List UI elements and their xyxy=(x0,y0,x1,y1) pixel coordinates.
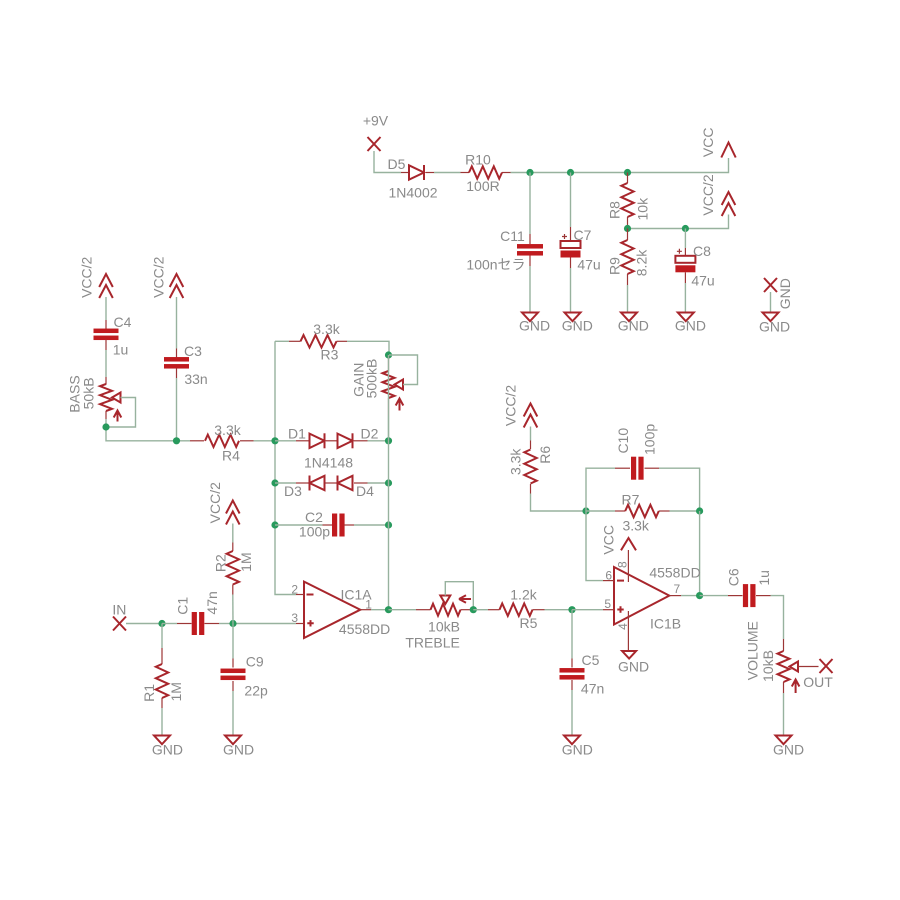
wire GAIN to D2 xyxy=(388,416,390,441)
wire R1 to GND xyxy=(161,708,163,736)
svg-text:3.3k: 3.3k xyxy=(214,422,241,438)
svg-text:GND: GND xyxy=(223,742,254,758)
svg-text:GND: GND xyxy=(675,318,706,334)
svg-text:8.2k: 8.2k xyxy=(633,249,649,276)
svg-text:R3: R3 xyxy=(321,347,339,363)
svg-text:100p: 100p xyxy=(299,524,330,540)
ground GND under C7 xyxy=(565,313,581,322)
wire to D3 xyxy=(275,482,296,484)
node left rail at D3 xyxy=(271,479,278,486)
ground GND under R9 xyxy=(621,313,637,322)
svg-text:R2: R2 xyxy=(212,554,228,572)
svg-text:C7: C7 xyxy=(574,227,592,243)
node IN pin xyxy=(113,617,126,631)
svg-text:1.2k: 1.2k xyxy=(510,587,537,603)
node GAIN top junction xyxy=(385,351,392,358)
svg-text:47u: 47u xyxy=(691,273,714,289)
svg-text:GND: GND xyxy=(777,278,793,309)
resistor R10 100R xyxy=(461,172,470,174)
power VCC arrow xyxy=(721,143,735,158)
wire R6 to feedback node xyxy=(531,494,587,512)
svg-text:10kB: 10kB xyxy=(760,650,776,682)
svg-text:2: 2 xyxy=(291,582,298,596)
wire C10 to right xyxy=(659,468,700,511)
svg-text:33n: 33n xyxy=(184,371,207,387)
wire feedback to output xyxy=(699,511,701,596)
svg-text:IC1B: IC1B xyxy=(650,616,681,632)
svg-text:4558DD: 4558DD xyxy=(649,565,700,581)
svg-text:1M: 1M xyxy=(168,682,184,701)
wire IN xyxy=(126,623,162,625)
wire to R1 xyxy=(161,624,163,649)
wire VCC rail xyxy=(511,158,729,173)
svg-text:1M: 1M xyxy=(238,552,254,571)
svg-text:3.3k: 3.3k xyxy=(507,448,523,475)
svg-text:C9: C9 xyxy=(246,654,264,670)
svg-text:47n: 47n xyxy=(204,591,220,614)
power VCC/2 arrow above C4 xyxy=(99,274,113,298)
svg-text:100p: 100p xyxy=(642,424,658,455)
node VCC junction at C7 xyxy=(567,169,574,176)
svg-text:1N4002: 1N4002 xyxy=(388,185,437,201)
svg-text:47n: 47n xyxy=(581,681,604,697)
wire VCC/2 to R6 xyxy=(530,427,532,441)
wire C11 to GND xyxy=(529,266,531,313)
wire pin 7 out xyxy=(681,595,700,597)
svg-text:C6: C6 xyxy=(726,568,742,586)
wire to C9 xyxy=(232,624,234,659)
power VCC arrow at pin 8 xyxy=(627,550,629,582)
svg-text:3.3k: 3.3k xyxy=(622,518,649,534)
svg-text:R1: R1 xyxy=(141,684,157,702)
wire C6 to VOLUME xyxy=(771,596,784,639)
node right rail at D2 xyxy=(385,437,392,444)
svg-text:IC1A: IC1A xyxy=(340,587,372,603)
wire R5 to C5 node xyxy=(545,609,573,611)
op-amp IC1A 4558DD xyxy=(304,582,360,638)
svg-text:D4: D4 xyxy=(356,483,374,499)
wire GAIN wiper loop xyxy=(389,355,418,385)
svg-text:3.3k: 3.3k xyxy=(313,321,340,337)
svg-text:C5: C5 xyxy=(582,652,600,668)
svg-text:C10: C10 xyxy=(615,428,631,454)
svg-text:GND: GND xyxy=(618,318,649,334)
svg-text:D5: D5 xyxy=(388,156,406,172)
wire to C1 xyxy=(162,623,177,625)
svg-text:IN: IN xyxy=(112,602,126,618)
svg-text:R4: R4 xyxy=(222,447,240,463)
svg-text:VCC/2: VCC/2 xyxy=(700,174,716,215)
node TREBLE right junction xyxy=(470,606,477,613)
svg-text:R9: R9 xyxy=(607,257,623,275)
wire R4 to diode node xyxy=(254,440,276,442)
svg-text:セラ: セラ xyxy=(498,257,526,273)
svg-text:VCC/2: VCC/2 xyxy=(151,256,167,297)
wire output to C6 xyxy=(700,595,728,597)
wire VCC/2 to C8 xyxy=(684,229,686,249)
svg-text:1u: 1u xyxy=(113,342,129,358)
svg-text:1N4148: 1N4148 xyxy=(304,455,353,471)
wire VOLUME to GND xyxy=(783,693,785,736)
potentiometer GAIN 500kB xyxy=(388,355,390,371)
svg-text:GND: GND xyxy=(759,319,790,335)
wire left rail to pin 2 xyxy=(275,341,296,594)
svg-text:VOLUME: VOLUME xyxy=(745,621,761,680)
node left rail at D1 xyxy=(271,437,278,444)
resistor R8 10k xyxy=(627,173,629,184)
svg-text:50kB: 50kB xyxy=(80,377,96,409)
svg-text:GND: GND xyxy=(562,318,593,334)
svg-text:R8: R8 xyxy=(607,201,623,219)
svg-text:R10: R10 xyxy=(465,152,491,168)
wire D4 to right rail xyxy=(368,482,389,484)
svg-text:C4: C4 xyxy=(114,314,132,330)
wire to R7 xyxy=(586,510,615,512)
svg-text:10kB: 10kB xyxy=(428,619,460,635)
wire BASS wiper loop xyxy=(106,398,136,428)
potentiometer BASS 50kB xyxy=(105,377,107,385)
node VCC/2 junction at C8 xyxy=(682,225,689,232)
svg-text:GND: GND xyxy=(773,742,804,758)
wire BASS to R4 xyxy=(106,419,190,441)
node +9V supply pin xyxy=(368,137,381,151)
svg-text:100R: 100R xyxy=(466,178,499,194)
svg-text:4558DD: 4558DD xyxy=(339,621,390,637)
node IC1A output junction xyxy=(385,606,392,613)
svg-text:R6: R6 xyxy=(537,446,553,464)
svg-text:R5: R5 xyxy=(520,615,538,631)
wire VCC to C11 xyxy=(529,173,531,235)
ground GND under VOLUME xyxy=(776,736,792,745)
wire R7 to right xyxy=(670,510,700,512)
resistor R4 3.3k xyxy=(190,440,204,442)
power VCC/2 arrow above R6 xyxy=(524,404,538,428)
svg-text:8: 8 xyxy=(615,561,629,568)
wire D5 to R10 xyxy=(434,172,461,174)
ground GND under C11 xyxy=(522,313,538,322)
wire feedback to pin 6 xyxy=(586,511,603,581)
svg-text:7: 7 xyxy=(674,582,681,596)
wire TREBLE wiper loop xyxy=(445,582,473,610)
wire C5 to GND xyxy=(571,690,573,736)
wire GND pin xyxy=(770,292,772,313)
node VCC/2 junction at R8/R9 xyxy=(624,225,631,232)
node pin3 junction xyxy=(229,620,236,627)
wire R9 to GND xyxy=(627,285,629,313)
wire D2 to right rail xyxy=(368,440,389,442)
svg-text:D1: D1 xyxy=(288,425,306,441)
wire right rail down to output xyxy=(388,355,390,610)
node C3 bottom junction xyxy=(173,437,180,444)
wire TREBLE to R5 xyxy=(473,609,488,611)
wire VCC/2 to R2 xyxy=(232,524,234,543)
wire R3 to GAIN xyxy=(347,341,389,355)
resistor R9 8.2k xyxy=(627,229,629,241)
ground GND under C9 xyxy=(225,736,241,745)
wire C1 node to pin 3 xyxy=(233,623,296,625)
svg-text:500kB: 500kB xyxy=(364,359,380,399)
wire R2 to node xyxy=(232,595,234,624)
ground GND symbol (isolated) xyxy=(763,313,779,322)
svg-text:C1: C1 xyxy=(175,597,191,615)
svg-text:GND: GND xyxy=(152,742,183,758)
power VCC/2 arrow above C3 xyxy=(170,274,184,298)
svg-text:C2: C2 xyxy=(305,509,323,525)
capacitor C3 33n xyxy=(176,349,178,358)
svg-text:C11: C11 xyxy=(500,228,525,244)
wire to pin 5 xyxy=(572,609,603,611)
op-amp IC1B 4558DD xyxy=(614,567,669,625)
diode D5 1N4002 xyxy=(401,172,409,174)
svg-text:GND: GND xyxy=(618,659,649,675)
diode D2 1N4148 xyxy=(326,440,338,442)
svg-text:22p: 22p xyxy=(244,683,268,699)
capacitor C4 1u xyxy=(105,320,107,329)
diode D4 1N4148 xyxy=(325,482,338,484)
node OUT pin xyxy=(798,666,819,668)
potentiometer TREBLE 10kB xyxy=(416,609,431,611)
node feedback right junction xyxy=(696,507,703,514)
resistor R2 1M xyxy=(232,543,234,552)
wire C5 drop xyxy=(571,610,573,659)
node feedback left junction xyxy=(582,507,589,514)
wire output to TREBLE xyxy=(389,609,417,611)
svg-text:6: 6 xyxy=(605,569,612,583)
svg-text:100n: 100n xyxy=(466,257,497,273)
wire C8 to GND xyxy=(684,283,686,313)
svg-text:OUT: OUT xyxy=(803,674,833,690)
wire C2 to right rail xyxy=(354,524,389,526)
svg-text:10k: 10k xyxy=(634,197,650,221)
svg-text:GND: GND xyxy=(519,318,550,334)
node VCC junction at R8 xyxy=(624,169,631,176)
svg-text:+9V: +9V xyxy=(363,113,389,129)
svg-text:R7: R7 xyxy=(622,492,640,508)
svg-text:VCC: VCC xyxy=(601,525,617,555)
wire to D1 xyxy=(275,440,296,442)
wire pin 1 to junction xyxy=(371,609,389,611)
node GND supply pin (isolated) xyxy=(764,278,777,292)
ground GND at pin 4 xyxy=(627,611,629,651)
svg-text:D3: D3 xyxy=(284,483,302,499)
svg-text:VCC: VCC xyxy=(700,128,716,158)
node input junction xyxy=(158,620,165,627)
svg-text:5: 5 xyxy=(604,597,611,611)
ground GND under R1 xyxy=(154,736,170,745)
wire up to C10 xyxy=(586,468,615,511)
svg-text:VCC/2: VCC/2 xyxy=(502,385,518,426)
wire C4 to BASS xyxy=(105,350,107,377)
svg-text:TREBLE: TREBLE xyxy=(405,634,459,650)
node left rail at C2 xyxy=(271,521,278,528)
potentiometer VOLUME 10kB xyxy=(783,639,785,651)
resistor R6 3.3k xyxy=(530,441,532,450)
node IC1B output junction xyxy=(696,592,703,599)
wire C3 down xyxy=(176,378,178,441)
svg-text:VCC/2: VCC/2 xyxy=(79,256,95,297)
ground GND under C5 xyxy=(564,736,580,745)
wire VCC/2 rail xyxy=(628,215,729,229)
svg-text:C8: C8 xyxy=(693,243,711,259)
node right rail at C2 xyxy=(385,521,392,528)
node VCC junction at C11 xyxy=(526,169,533,176)
wire C7 to GND xyxy=(570,268,572,313)
wire VCC/2 to C4 xyxy=(105,297,107,320)
wire C1 to node xyxy=(219,623,233,625)
svg-text:GND: GND xyxy=(562,742,593,758)
node right rail at D4 xyxy=(385,479,392,486)
wire VCC to C7 xyxy=(570,173,572,228)
svg-text:D2: D2 xyxy=(361,425,379,441)
wire C9 to GND xyxy=(232,691,234,736)
wire to R3 xyxy=(275,340,289,342)
svg-text:VCC/2: VCC/2 xyxy=(207,482,223,523)
svg-text:47u: 47u xyxy=(577,257,600,273)
power VCC/2 arrow above R2 xyxy=(226,501,240,525)
node C5 junction xyxy=(568,606,575,613)
wire +9V to D5 xyxy=(374,151,401,173)
wire VCC/2 to C3 xyxy=(176,297,178,349)
power VCC/2 arrow at rail xyxy=(722,192,736,216)
svg-text:1u: 1u xyxy=(756,570,772,586)
wire to C2 xyxy=(275,524,323,526)
ground GND under C8 xyxy=(678,313,694,322)
svg-text:C3: C3 xyxy=(184,343,202,359)
node BASS wiper junction xyxy=(102,423,109,430)
